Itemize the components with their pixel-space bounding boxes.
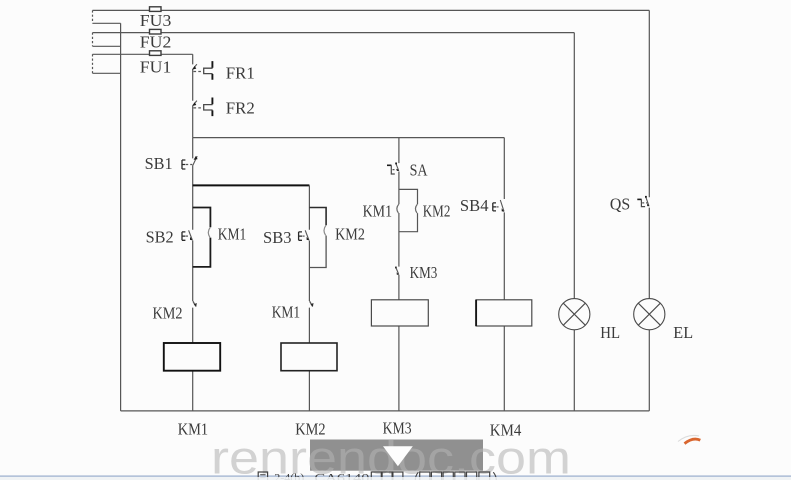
contact KM1 NO on branch3 — [397, 204, 399, 213]
wire seal-in link (dark) — [193, 184, 310, 186]
wire L3 phase line — [93, 53, 193, 55]
contact KM1 aux loop branch1 — [193, 208, 211, 267]
wire top rail — [193, 137, 505, 139]
pushbutton SB2 — [182, 230, 193, 240]
svg-text:KM2: KM2 — [153, 304, 183, 323]
disconnect switch QS — [637, 196, 649, 207]
wire branch4 vertical — [503, 138, 505, 411]
svg-text:SB1: SB1 — [145, 154, 173, 173]
wire left rail — [120, 23, 122, 411]
wire branch1 vertical — [192, 138, 194, 411]
pushbutton SB4 — [493, 200, 505, 212]
caption text strip — [0, 475, 791, 477]
svg-text:KM2: KM2 — [335, 224, 365, 243]
wire FR branch vertical — [192, 54, 194, 137]
wire branch2 vertical — [308, 185, 310, 411]
svg-text:KM3: KM3 — [410, 263, 438, 282]
svg-text:FU3: FU3 — [140, 11, 172, 30]
wire L1 phase line top — [93, 9, 650, 11]
thermal relay contact FR2 — [192, 98, 212, 117]
svg-text:SB2: SB2 — [146, 228, 174, 247]
contactor coil KM3 — [371, 300, 428, 326]
contact KM3 NC on branch3 — [395, 267, 399, 275]
node L2 terminal bracket — [93, 33, 121, 47]
caption figure title — [258, 471, 496, 480]
svg-text:FU2: FU2 — [140, 33, 172, 52]
svg-text:KM1: KM1 — [272, 303, 301, 322]
contact KM2 aux loop branch2 — [309, 208, 326, 268]
svg-text:FR1: FR1 — [226, 63, 255, 82]
wire branch3 vertical — [398, 138, 400, 411]
svg-text:EL: EL — [673, 323, 693, 342]
contactor coil KM4 — [476, 300, 532, 326]
svg-text:KM2: KM2 — [423, 202, 451, 221]
fuse FU3 — [150, 7, 162, 12]
wire HL branch vertical — [573, 33, 575, 411]
bottom toolbar strip — [0, 477, 791, 480]
contactor coil KM2 — [281, 343, 337, 371]
play button triangle — [383, 446, 413, 466]
node L3 terminal bracket — [93, 54, 121, 73]
svg-text:FR2: FR2 — [226, 99, 255, 118]
contact KM1 NC on branch2 — [310, 301, 314, 307]
fuse FU2 — [150, 29, 162, 34]
svg-text:FU1: FU1 — [140, 58, 172, 77]
svg-text:KM1: KM1 — [363, 202, 393, 221]
svg-text:SB4: SB4 — [460, 196, 489, 215]
pushbutton SB1 — [182, 156, 198, 169]
lamp HL — [559, 299, 590, 330]
contact KM2 NO parallel loop branch3 — [399, 189, 418, 231]
wire L2 phase line — [93, 32, 575, 34]
selector switch SA — [387, 163, 399, 175]
fuse FU1 — [150, 51, 162, 56]
pushbutton SB3 — [299, 230, 310, 240]
player bar overlay — [310, 440, 483, 471]
contactor coil KM1 — [164, 343, 220, 371]
contact KM2 NC on branch1 — [193, 301, 197, 307]
wire bottom rail — [121, 410, 650, 412]
svg-text:KM1: KM1 — [178, 420, 208, 439]
watermark orange arc — [678, 435, 699, 441]
wire EL branch vertical — [648, 10, 650, 411]
thermal relay contact FR1 — [192, 61, 212, 80]
lamp EL — [634, 299, 665, 330]
svg-text:QS: QS — [610, 195, 630, 214]
svg-text:KM1: KM1 — [218, 225, 247, 244]
svg-text:HL: HL — [600, 323, 620, 342]
svg-text:SB3: SB3 — [263, 228, 292, 247]
svg-text:SA: SA — [410, 161, 429, 180]
node L1 terminal bracket — [93, 10, 121, 23]
